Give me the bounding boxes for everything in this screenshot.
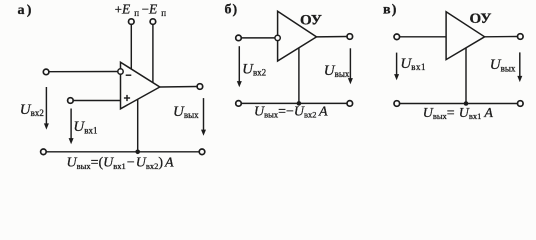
figure label b): [225, 3, 238, 18]
common rail v: [400, 103, 518, 105]
output terminal: [197, 84, 203, 90]
wire input b: [241, 37, 275, 39]
power terminal +Ep: [129, 19, 135, 25]
power label -Ep: [142, 2, 167, 18]
wire non-inverting input: [73, 100, 120, 102]
op-amp U1 plus sign: [124, 95, 130, 101]
svg-text:в): в): [383, 2, 397, 17]
junction dot: [135, 150, 140, 155]
formula b: [254, 104, 328, 119]
formula v: [423, 106, 494, 121]
arrow Uin1: [69, 109, 74, 145]
op-amp U1 inverting input bubble: [118, 69, 123, 74]
power terminal -Ep: [150, 19, 156, 25]
figure label v): [383, 2, 397, 17]
output wire b: [317, 36, 348, 38]
wire inverting input: [49, 71, 118, 73]
figure label a): [18, 3, 32, 18]
svg-text:ОУ: ОУ: [300, 12, 322, 28]
label Uin2: [20, 102, 44, 118]
svg-text:ОУ: ОУ: [470, 11, 492, 27]
op-amp U1 triangle: [121, 62, 160, 109]
op-amp label OU b: [300, 12, 322, 28]
wire +Ep to op-amp top edge: [130, 24, 132, 69]
arrow Uout: [201, 98, 206, 136]
output wire v: [485, 36, 518, 38]
output terminal v: [518, 34, 524, 40]
label Uout: [173, 104, 199, 120]
rail terminal left b: [236, 101, 242, 107]
output terminal b: [347, 34, 353, 40]
arrow Uin2: [44, 87, 49, 130]
op-amp U2 triangle: [278, 11, 317, 61]
arrow Uout v: [517, 52, 522, 82]
rail terminal left a: [41, 149, 47, 155]
power label +Ep: [115, 2, 140, 18]
wire op-amp to rail b: [298, 48, 300, 104]
rail terminal left v: [394, 101, 400, 107]
input terminal Uin2: [43, 69, 49, 75]
output wire: [160, 86, 197, 89]
op-amp U1 minus sign: [126, 74, 132, 76]
rail terminal right b: [347, 101, 353, 107]
junction dot b: [297, 101, 302, 106]
wire op-amp to common rail: [137, 99, 139, 152]
input terminal b: [236, 35, 242, 41]
wire op-amp to rail v: [465, 48, 467, 104]
label Uin1: [73, 119, 97, 135]
label Uin2 b: [242, 61, 266, 77]
wire -Ep to op-amp top edge: [152, 24, 154, 82]
wire input v: [400, 36, 447, 38]
label Uin1 v: [400, 56, 426, 72]
arrow Uin2 b: [237, 46, 242, 87]
common rail a: [46, 151, 199, 153]
op-amp U3 triangle: [446, 12, 485, 60]
formula a: [67, 156, 175, 171]
rail terminal right v: [518, 101, 524, 107]
rail terminal right a: [199, 149, 205, 155]
op-amp label OU v: [470, 11, 492, 27]
junction dot v: [464, 101, 469, 106]
input terminal v: [394, 34, 400, 40]
label Uout v: [490, 57, 516, 73]
input terminal Uin1: [68, 98, 74, 104]
arrow Uin1 v: [394, 53, 399, 81]
svg-text:б): б): [225, 3, 238, 18]
common rail b: [241, 102, 347, 104]
arrow Uout b: [348, 48, 353, 84]
op-amp U2 inverting input bubble: [275, 35, 280, 40]
label Uout b: [324, 63, 350, 79]
